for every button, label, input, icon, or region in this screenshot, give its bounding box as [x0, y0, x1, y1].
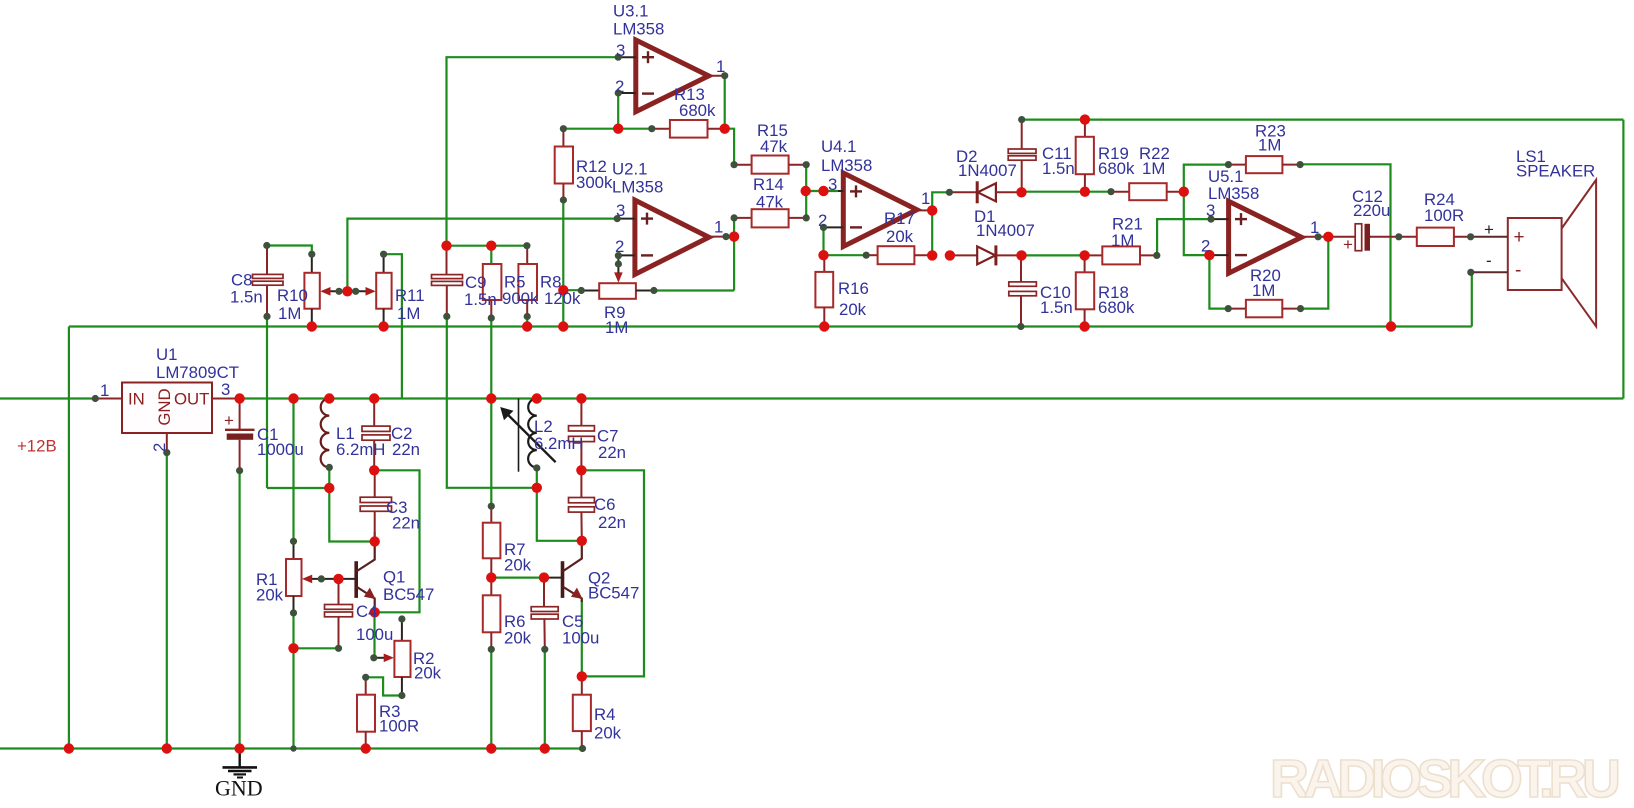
wire R13 right to R15 left: [725, 129, 734, 165]
wire R8 bottom stub: [526, 317, 528, 327]
svg-text:R14: R14: [753, 175, 784, 194]
capacitor C12 220u polarized: [1328, 224, 1371, 254]
label R17: [884, 209, 915, 246]
svg-text:RADIOSKOT.RU: RADIOSKOT.RU: [1270, 749, 1621, 808]
svg-text:1: 1: [714, 218, 723, 237]
label U4.1 pins: [818, 175, 930, 230]
wire R11 top to +9V rail: [384, 254, 402, 398]
wire R22 right up to R23 left: [1184, 165, 1229, 192]
resistor R5 900k: [483, 264, 502, 318]
resistor R24 100R: [1370, 228, 1471, 246]
svg-text:120k: 120k: [544, 289, 581, 308]
inductor L1 6.2mH: [321, 399, 330, 468]
wire U4.1 pin2 drop: [822, 227, 824, 255]
svg-text:680k: 680k: [1098, 159, 1135, 178]
wire pin2 down to R20 left: [1209, 255, 1228, 309]
resistor R22 1M: [1111, 183, 1184, 200]
svg-text:20k: 20k: [594, 724, 622, 743]
U1 pin1 lead: [95, 398, 122, 400]
svg-text:LM358: LM358: [1208, 184, 1259, 203]
svg-text:U2.1: U2.1: [612, 160, 647, 179]
wire R5 top stub: [490, 246, 492, 264]
wire D2 node horizontal: [1022, 191, 1112, 193]
label R12: [576, 157, 613, 192]
svg-text:OUT: OUT: [174, 390, 209, 409]
wire mid rail left drop: [68, 327, 70, 749]
U1 pin2 lead: [166, 433, 168, 453]
watermark RADIOSKOT.RU: [1270, 749, 1621, 808]
label R1: [256, 570, 284, 605]
svg-text:R17: R17: [884, 209, 915, 228]
svg-text:20k: 20k: [886, 227, 914, 246]
ground symbol: [215, 749, 263, 801]
resistor R4 20k: [573, 676, 591, 748]
svg-text:3: 3: [1206, 201, 1215, 220]
svg-text:22n: 22n: [598, 443, 626, 462]
wire C8 top to R10 top: [267, 246, 312, 255]
wire R1 chain top: [292, 399, 294, 542]
wire +9V rail main segment: [240, 397, 1624, 399]
svg-text:-: -: [1486, 251, 1492, 270]
svg-text:1.5n: 1.5n: [1042, 159, 1075, 178]
label +12B: [17, 437, 57, 456]
wire U4.1 output down to R17 right: [931, 210, 933, 255]
svg-text:1.5n: 1.5n: [464, 290, 497, 309]
potentiometer R1 20k: [286, 541, 339, 613]
op-amp U5.1: [1209, 201, 1328, 273]
label Q1: [383, 568, 434, 605]
svg-text:1M: 1M: [1111, 231, 1134, 250]
resistor R7 20k: [483, 506, 501, 577]
wire C4 bottom link: [294, 647, 339, 649]
svg-text:+: +: [1514, 227, 1525, 248]
svg-text:-: -: [1515, 260, 1521, 281]
svg-text:22n: 22n: [392, 514, 420, 533]
svg-text:R10: R10: [277, 286, 308, 305]
label R2: [413, 649, 442, 683]
svg-text:1N4007: 1N4007: [976, 221, 1035, 240]
potentiometer R9 1M: [581, 255, 654, 298]
inductor L2 6.2mH variable: [500, 399, 555, 472]
label C4: [356, 602, 393, 644]
label R15: [757, 121, 788, 156]
svg-text:C6: C6: [594, 495, 615, 514]
capacitor C3 22n: [360, 470, 391, 541]
label L1: [336, 424, 385, 459]
svg-text:SPEAKER: SPEAKER: [1516, 162, 1595, 181]
svg-text:IN: IN: [128, 390, 145, 409]
wire R15 R14 right vertical: [805, 165, 807, 218]
wire L1 node down to C3 bottom: [329, 488, 374, 542]
svg-text:1M: 1M: [1252, 281, 1275, 300]
capacitor C11 1.5n: [1008, 120, 1036, 192]
label C6: [594, 495, 626, 532]
label C12: [1352, 187, 1390, 220]
label R20: [1250, 266, 1281, 300]
U1 pin3 lead: [212, 398, 240, 400]
label R4: [594, 705, 622, 743]
resistor R6 20k: [483, 578, 501, 650]
svg-text:R4: R4: [594, 705, 615, 724]
svg-text:22n: 22n: [598, 513, 626, 532]
svg-text:+: +: [224, 411, 234, 430]
label R14: [753, 175, 784, 212]
wire top rail: [1022, 118, 1624, 120]
wire U3.1 output drop: [724, 76, 726, 129]
label C8: [230, 271, 263, 307]
wire mid rail right riser to speaker minus: [1471, 272, 1473, 326]
svg-text:2: 2: [150, 443, 169, 452]
svg-text:20k: 20k: [256, 586, 284, 605]
svg-text:1: 1: [100, 381, 109, 400]
svg-text:1M: 1M: [397, 304, 420, 323]
resistor R18 680k: [1076, 255, 1094, 326]
capacitor C7 22n: [569, 399, 595, 471]
svg-text:6.2mH: 6.2mH: [534, 434, 583, 453]
resistor R3 100R: [357, 677, 375, 748]
svg-text:+: +: [1484, 220, 1494, 239]
label R24: [1424, 190, 1464, 225]
label R22: [1139, 144, 1170, 178]
wire C1 bottom drop: [239, 471, 241, 749]
resistor R14 47k: [734, 209, 806, 227]
wire U5.1 pin3 to R21 right: [1157, 219, 1211, 255]
label R10: [277, 286, 308, 323]
resistor R19 680k: [1076, 120, 1094, 192]
wire C9 bottom drop to L2 bottom: [447, 316, 537, 487]
svg-text:GND: GND: [155, 388, 174, 425]
wire R12 top feedback: [563, 128, 651, 130]
label C10: [1040, 283, 1073, 317]
capacitor C4 100u: [325, 579, 353, 648]
label R3: [379, 702, 419, 736]
resistor R15 47k: [734, 156, 806, 174]
wire D1 node to R21 left: [1022, 254, 1085, 256]
wire Q2 emitter drop: [581, 600, 583, 676]
svg-text:20k: 20k: [504, 556, 532, 575]
label C7: [597, 427, 626, 463]
svg-text:U1: U1: [156, 345, 177, 364]
op-amp U3.1: [618, 40, 725, 112]
svg-text:GND: GND: [215, 776, 263, 801]
svg-text:+: +: [1343, 235, 1353, 254]
svg-text:3: 3: [221, 380, 230, 399]
capacitor C10 1.5n: [1009, 255, 1037, 326]
wire C2 bottom to Q1 emitter loop: [374, 470, 419, 612]
wire U4.1 pin3: [806, 190, 838, 192]
wire R20 right up to output: [1301, 237, 1329, 309]
wire pin2 to R17 left: [824, 254, 867, 256]
svg-text:1000u: 1000u: [257, 440, 304, 459]
label R18: [1098, 283, 1135, 317]
capacitor C6 22n: [569, 470, 595, 541]
label R11: [395, 286, 425, 323]
wire U1 GND pin drop: [166, 453, 168, 749]
svg-text:1.5n: 1.5n: [1040, 298, 1073, 317]
label R16: [838, 279, 869, 319]
svg-text:BC547: BC547: [383, 585, 434, 604]
label U2.1: [612, 160, 663, 197]
label Q2: [588, 569, 639, 603]
svg-text:1.5n: 1.5n: [230, 288, 263, 307]
svg-text:2: 2: [615, 77, 624, 96]
wire mid reference rail: [69, 325, 1472, 327]
resistor R12 300k: [555, 129, 573, 200]
svg-text:BC547: BC547: [588, 584, 639, 603]
svg-text:20k: 20k: [504, 629, 532, 648]
wire R12 bottom to mid rail: [562, 200, 564, 327]
svg-text:22n: 22n: [392, 440, 420, 459]
svg-text:6.2mH: 6.2mH: [336, 440, 385, 459]
wire wiper node riser: [347, 219, 617, 292]
wire R22 node down to U5.1 pin2: [1184, 192, 1210, 255]
potentiometer R11 1M: [347, 254, 391, 326]
svg-text:3: 3: [828, 175, 837, 194]
label R13: [674, 85, 716, 120]
svg-text:47k: 47k: [756, 193, 784, 212]
label R6: [504, 612, 532, 648]
wire +9V rail left segment: [0, 397, 95, 399]
wire right edge riser: [1622, 120, 1624, 399]
svg-text:LM358: LM358: [612, 178, 663, 197]
svg-text:C4: C4: [356, 602, 377, 621]
label U5.1 pins: [1201, 201, 1319, 256]
capacitor C1 1000u polarized: [224, 399, 255, 471]
diode D2 1N4007: [949, 181, 1021, 203]
label U2.1 pins: [615, 201, 723, 256]
svg-text:1N4007: 1N4007: [958, 161, 1017, 180]
label U1 pins: [100, 380, 230, 452]
wire ground rail: [0, 747, 583, 749]
wire R9 left stub: [563, 289, 581, 291]
label R19: [1098, 144, 1135, 178]
svg-text:Q1: Q1: [383, 568, 405, 587]
label C5: [562, 612, 599, 648]
svg-text:1M: 1M: [605, 318, 628, 337]
svg-text:100u: 100u: [562, 629, 599, 648]
label U4.1: [821, 137, 872, 175]
wire R7 bottom base wire: [491, 576, 544, 578]
wire R9 right horizontal: [654, 289, 734, 291]
label U1: [156, 345, 239, 382]
svg-text:2: 2: [818, 211, 827, 230]
svg-text:300k: 300k: [576, 173, 613, 192]
wire Q1 emitter to R2 wiper: [373, 612, 375, 658]
wire R14 left to U2.1 output to R9 corner: [733, 218, 735, 291]
label R21: [1111, 215, 1143, 251]
resistor R13 680k: [652, 120, 725, 138]
svg-text:20k: 20k: [414, 664, 442, 683]
resistor R23 1M: [1228, 156, 1300, 173]
transistor Q1 BC547: [339, 542, 376, 613]
diode D1 1N4007: [950, 245, 1022, 265]
label C2: [391, 424, 420, 459]
svg-text:R11: R11: [395, 286, 425, 305]
resistor R16 20k: [815, 255, 833, 326]
wire U3.1 pin3 to C9 node: [447, 57, 619, 246]
svg-text:100u: 100u: [356, 625, 393, 644]
wire L2 node down to C6 bottom: [537, 488, 582, 541]
pin dots dark: [92, 54, 1475, 753]
label C3: [386, 498, 420, 533]
svg-text:680k: 680k: [1098, 298, 1135, 317]
wire R1 bottom to ground: [292, 613, 294, 749]
label L2: [534, 417, 583, 453]
junction dots red: [64, 114, 1397, 753]
wire L2 bottom stub: [536, 468, 538, 488]
svg-text:1M: 1M: [278, 304, 301, 323]
svg-text:2: 2: [615, 237, 624, 256]
regulator U1 LM7809CT: [122, 383, 212, 434]
svg-text:3: 3: [616, 201, 625, 220]
wire C7 node to Q2 emitter loop: [581, 470, 644, 676]
wire U3.1 pin2 drop: [617, 93, 619, 129]
resistor R8 120k: [518, 246, 537, 317]
wire L1 bottom stub: [328, 467, 330, 488]
resistor R21 1M: [1085, 246, 1157, 264]
label C1: [257, 425, 304, 459]
label R9: [604, 303, 628, 337]
resistor R20 1M: [1228, 300, 1300, 318]
wire C8 bottom drop: [266, 316, 268, 488]
transistor Q2 BC547: [544, 541, 583, 602]
label D2: [956, 147, 1017, 180]
svg-text:1M: 1M: [1142, 159, 1165, 178]
svg-text:LM358: LM358: [613, 20, 664, 39]
label R5: [502, 273, 539, 309]
wire R23 right to mid rail: [1300, 164, 1390, 326]
wire R5 bottom through rail to R7 top: [490, 318, 492, 506]
svg-text:U3.1: U3.1: [613, 2, 648, 21]
label R7: [504, 540, 532, 575]
label D1: [974, 207, 1035, 240]
svg-text:900k: 900k: [502, 289, 539, 308]
wire C5 bottom drop: [544, 649, 546, 748]
op-amp U2.1: [617, 200, 726, 274]
capacitor C8 1.5n: [253, 246, 284, 317]
label C9: [464, 273, 497, 309]
capacitor C2 22n: [362, 399, 390, 471]
potentiometer R2 20k: [374, 619, 411, 696]
wire C9 node horizontal: [447, 245, 527, 247]
wire R6 bottom drop: [490, 649, 492, 748]
label U5.1: [1208, 167, 1259, 203]
label C11: [1042, 144, 1075, 178]
label U3.1 pins: [615, 41, 725, 96]
svg-text:47k: 47k: [760, 137, 788, 156]
label R23: [1255, 122, 1286, 155]
svg-text:3: 3: [616, 41, 625, 60]
svg-text:680k: 680k: [679, 101, 716, 120]
wire R2 bottom jog to R3 top: [366, 677, 402, 695]
op-amp U4.1: [824, 173, 933, 247]
capacitor C9 1.5n: [432, 246, 463, 317]
svg-text:U4.1: U4.1: [821, 137, 856, 156]
label LS1: [1516, 147, 1595, 181]
svg-text:1M: 1M: [1258, 136, 1281, 155]
label R8: [540, 273, 581, 309]
capacitor C5 100u: [531, 578, 558, 650]
svg-text:100R: 100R: [1424, 206, 1464, 225]
svg-text:1: 1: [716, 57, 725, 76]
resistor R17 20k: [866, 246, 932, 264]
svg-text:LM358: LM358: [821, 156, 872, 175]
label U3.1: [613, 2, 664, 39]
svg-text:1: 1: [1310, 218, 1319, 237]
speaker LS1: [1471, 180, 1597, 327]
wire C8 drop to L1 bottom: [267, 487, 329, 489]
svg-text:+12B: +12B: [17, 437, 57, 456]
svg-text:2: 2: [1201, 237, 1210, 256]
svg-text:220u: 220u: [1353, 201, 1390, 220]
svg-text:20k: 20k: [839, 300, 867, 319]
potentiometer R10 1M: [304, 254, 347, 326]
svg-text:1: 1: [921, 189, 930, 208]
wire U4.1 output up to D2: [932, 192, 949, 210]
svg-text:100R: 100R: [379, 717, 419, 736]
svg-text:R16: R16: [838, 279, 869, 298]
